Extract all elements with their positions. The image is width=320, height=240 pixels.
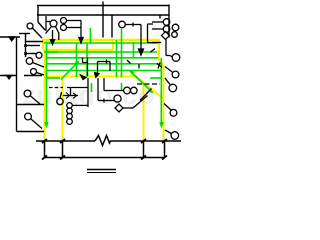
tick t2 bbox=[60, 156, 65, 160]
lamp chain c1 bbox=[67, 103, 73, 109]
wire wall line mid-left bbox=[0, 75, 17, 77]
wire top bus line 1 bbox=[37, 5, 169, 7]
outlet O4 circle bbox=[172, 24, 179, 31]
wire panel stub y41 bbox=[26, 41, 44, 43]
arrow down x81 bbox=[79, 38, 83, 44]
arrow down x52 bbox=[50, 40, 54, 45]
wire yellow diagonal right bbox=[137, 77, 164, 99]
meter M1 circle bbox=[50, 20, 57, 27]
wire vertical x141 bbox=[140, 25, 142, 54]
wire yellow left vertical bus bbox=[44, 50, 46, 140]
break symbol zigzag bbox=[95, 136, 111, 146]
wire mid box h y61 bbox=[98, 61, 111, 63]
wire yellow vertical at x62 bbox=[62, 77, 64, 140]
wire mid box vertical x97 bbox=[97, 62, 99, 76]
wire vertical x112 bbox=[111, 15, 113, 38]
arrow tick a2 bbox=[73, 93, 77, 99]
node tick top right cluster bbox=[157, 63, 162, 69]
lamp L3 circle bbox=[114, 95, 121, 102]
arrow down x141 bbox=[139, 49, 144, 55]
wire to O2 bbox=[152, 28, 163, 30]
wire dim baseline y157 bbox=[45, 157, 166, 159]
outlet O6 circle bbox=[172, 54, 180, 62]
tick b2 bbox=[60, 139, 65, 143]
switch S3 circle bbox=[26, 58, 33, 65]
junction dot y61 bbox=[106, 60, 108, 64]
wire green accent a bbox=[44, 42, 52, 44]
wire diagonal leader bl bbox=[140, 89, 152, 101]
outlet O1 circle bbox=[163, 19, 170, 26]
wire drop x52 bbox=[52, 30, 54, 41]
scale bar double line bbox=[87, 170, 116, 173]
wire h y24 bbox=[148, 23, 154, 25]
wire small h y33 bbox=[19, 33, 30, 35]
wire yellow second horizontal bbox=[43, 49, 113, 51]
wire from L1 bbox=[125, 24, 141, 26]
outlet O3 diamond bbox=[162, 32, 170, 40]
tick t1 bbox=[42, 156, 47, 160]
wire yellow vertical at x143 bbox=[143, 82, 145, 140]
wire from F1 bbox=[123, 107, 133, 109]
outlet O7 circle bbox=[172, 71, 179, 78]
wire top bus line 2 bbox=[37, 14, 169, 16]
wire green vertical x133 bbox=[133, 43, 135, 58]
wire panel vertical x25 bbox=[25, 34, 27, 57]
wire branch y104 bbox=[17, 104, 45, 106]
wire leader to O7 bbox=[165, 67, 172, 73]
wire green vertical x121 bbox=[121, 29, 123, 77]
wire green diagonal arrow right bbox=[130, 71, 153, 93]
tick b4 bbox=[162, 139, 167, 143]
fan F1 diamond bbox=[115, 104, 123, 112]
wire left wall vertical x17 bbox=[16, 37, 18, 132]
wire leader S4 bbox=[37, 73, 45, 76]
node tick x160 bbox=[159, 15, 161, 19]
switch S5 circle bbox=[24, 90, 31, 97]
outlet O8 circle bbox=[169, 84, 177, 92]
wire diagonal to bus bbox=[133, 96, 148, 109]
switch S2 circle bbox=[36, 52, 42, 58]
outlet O5 circle bbox=[172, 32, 178, 38]
wire yellow right vertical bus bbox=[159, 40, 164, 140]
wire green diagonal arrow left bbox=[61, 62, 79, 80]
wire vertical x166 bbox=[165, 40, 167, 56]
arrow tick a1 bbox=[66, 93, 70, 99]
box B1 mid bbox=[67, 78, 88, 107]
wire green stub y78 right bbox=[150, 77, 161, 79]
node tick x128 y61 bbox=[127, 60, 131, 64]
wire green left vertical bus bbox=[46, 43, 48, 127]
wire drop x98 bbox=[97, 78, 99, 101]
meter M1 box left side bbox=[45, 16, 47, 31]
tick b3 bbox=[141, 139, 146, 143]
wire leader from drop bbox=[38, 22, 45, 30]
arrow down x97 bbox=[95, 73, 99, 78]
terminal T1 circle bbox=[61, 18, 67, 24]
wire green accent c bbox=[152, 42, 158, 44]
lamp L4 circle bbox=[124, 87, 131, 94]
wire arrows y95.5 bbox=[63, 95, 78, 97]
wire green vertical top x90 bbox=[90, 28, 92, 43]
tick b1 bbox=[42, 139, 47, 143]
terminal T2 circle bbox=[61, 25, 67, 31]
dashed wire y87 bbox=[49, 87, 63, 89]
wire green accent b bbox=[45, 51, 58, 53]
wire from T2 bbox=[67, 27, 82, 29]
wire green stub y78 left bbox=[47, 77, 60, 79]
wire chain to box bbox=[72, 104, 88, 106]
wire leader S3 bbox=[33, 63, 45, 68]
junction tick x133 bbox=[132, 23, 134, 27]
wire bottom line right part bbox=[110, 140, 181, 142]
wire leader to O6 bbox=[170, 56, 173, 58]
wire black x87.5 bbox=[87, 58, 89, 77]
wire green vertical x116 bbox=[116, 40, 118, 77]
lamp chain c2 bbox=[67, 108, 73, 114]
wire switch S1 leader bbox=[32, 28, 42, 38]
wire panel stub y53 bbox=[26, 53, 38, 55]
ground symbol top-left bbox=[9, 37, 15, 41]
lamp chain c3 bbox=[67, 113, 73, 119]
wire leader S6 bbox=[31, 119, 42, 129]
wire leader to O10 bbox=[165, 130, 171, 134]
wire vertical x81 bbox=[80, 21, 82, 42]
lamp chain c4 bbox=[67, 119, 73, 125]
wire dim vertical x44 bbox=[44, 141, 46, 158]
tick t3 bbox=[141, 156, 146, 160]
outlet O9 circle bbox=[170, 109, 177, 116]
black linework bbox=[0, 2, 169, 132]
tick t4 bbox=[162, 156, 167, 160]
ground symbol mid-left bbox=[7, 76, 12, 79]
switch S4 circle bbox=[31, 69, 37, 75]
lamp L1 circle bbox=[119, 21, 126, 28]
dashed wire y84 bbox=[137, 83, 160, 85]
node tick x152 y50 bbox=[151, 49, 156, 53]
lamp L2 circle left bbox=[57, 98, 63, 104]
wire h y100.5 bbox=[98, 100, 114, 102]
wire dim vertical x143 bbox=[143, 141, 145, 158]
wire vertical x147 bbox=[147, 24, 149, 43]
wire yellow mid bend bbox=[112, 40, 114, 50]
wire vertical x103 bbox=[102, 2, 104, 38]
wire yellow left bend bbox=[42, 40, 44, 50]
wire green right vertical bus bbox=[160, 58, 162, 126]
wire bottom line with break bbox=[36, 140, 95, 142]
wire dim vertical x62 bbox=[62, 141, 64, 158]
wire drop x104 bbox=[103, 78, 105, 91]
lamp L5 circle bbox=[131, 87, 138, 94]
wire green stub x91 bbox=[91, 83, 93, 92]
wire black h y62.5 bbox=[83, 62, 89, 64]
switch S6 circle bbox=[25, 113, 32, 120]
wire branch y131 bbox=[17, 131, 45, 133]
node tick x139 y66 bbox=[138, 64, 140, 69]
wire h y90.5 bbox=[104, 90, 123, 92]
wire wall line top-left bbox=[0, 36, 20, 38]
wire from T1 bbox=[67, 20, 82, 22]
wire meter M1 tail right bbox=[56, 27, 59, 41]
wire black x82 bbox=[82, 58, 84, 63]
outlet O2 circle bbox=[163, 26, 170, 33]
wire leader to O9 bbox=[164, 104, 171, 111]
junction x104 bbox=[103, 99, 105, 103]
wire yellow pale fringe horizontal band bbox=[42, 39, 160, 75]
wire green arrowheads bbox=[44, 61, 164, 129]
wire green vertical x76 bbox=[76, 43, 78, 77]
wire foot y55 bbox=[166, 55, 170, 57]
wire leader to O8 bbox=[165, 78, 170, 85]
wire branch y75 bbox=[24, 75, 42, 77]
wire right end vertical x169 bbox=[168, 5, 170, 38]
wire yellow circuit Y1 top horizontal bbox=[42, 40, 164, 140]
switch S1 circle top-left bbox=[27, 23, 33, 29]
bottom dimension structure bbox=[36, 136, 181, 160]
wire yellow main band bbox=[44, 76, 137, 78]
wire left drop of top bus bbox=[37, 6, 39, 23]
wire green circuit G horizontal rungs bbox=[44, 28, 161, 126]
wire meter M1 tap bbox=[46, 21, 50, 23]
wire h y42.5 bbox=[148, 42, 162, 44]
wire leader S5 bbox=[30, 96, 40, 104]
box B1 left side bbox=[70, 88, 72, 96]
wire mid box vertical x110 bbox=[109, 62, 111, 72]
wire meter M1 leg bbox=[46, 27, 52, 34]
wire to O1 bbox=[152, 21, 163, 23]
wire panel stub y45 bbox=[26, 45, 41, 47]
wire dim vertical x164 bbox=[164, 141, 166, 158]
wire green stub x121 bbox=[121, 83, 123, 91]
wire green vertical x87 bbox=[86, 43, 88, 77]
outlet O10 circle bbox=[171, 132, 179, 140]
wire L2 stem bbox=[60, 92, 62, 98]
arrow tick x84 bbox=[81, 75, 87, 80]
